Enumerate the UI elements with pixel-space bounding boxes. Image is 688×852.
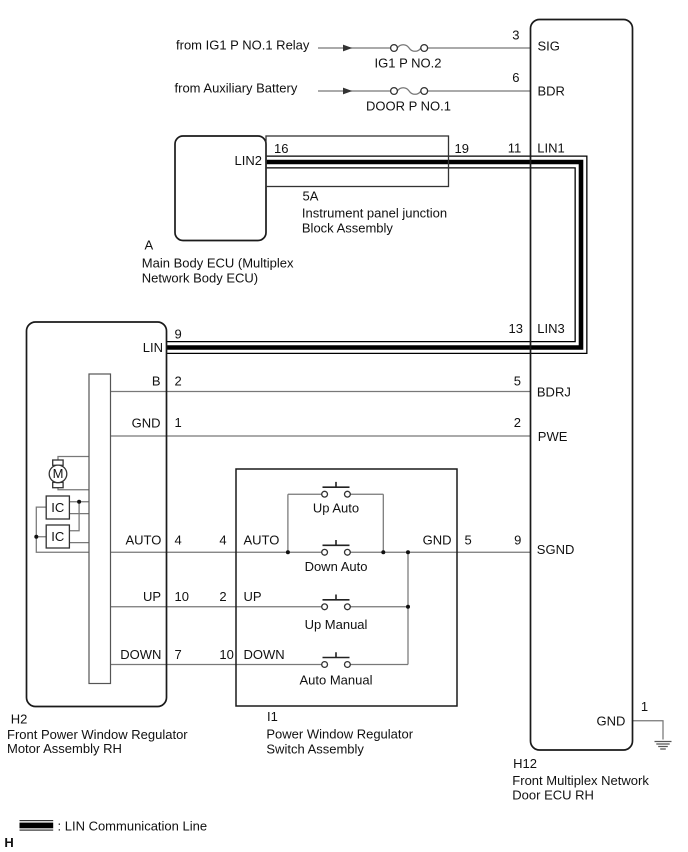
svg-text:6: 6: [512, 70, 519, 85]
svg-text:IG1 P NO.2: IG1 P NO.2: [375, 56, 442, 71]
wire H12 GND pin to ground: [633, 721, 664, 740]
svg-text:LIN2: LIN2: [235, 153, 262, 168]
arrow SIG row: [343, 45, 352, 52]
svg-text:Main Body ECU (Multiplex: Main Body ECU (Multiplex: [142, 255, 294, 270]
svg-text:Up Manual: Up Manual: [305, 617, 368, 632]
wire DOWN / Auto Manual row: [111, 664, 409, 666]
svg-text:5: 5: [514, 373, 521, 388]
svg-text:5A: 5A: [303, 189, 319, 204]
arrow BDR row: [343, 88, 352, 95]
svg-text:1: 1: [641, 699, 648, 714]
svg-text:Front Multiplex Network: Front Multiplex Network: [512, 773, 649, 788]
svg-text:Instrument panel junction: Instrument panel junction: [302, 206, 447, 221]
svg-text:4: 4: [175, 532, 182, 547]
svg-text:LIN: LIN: [143, 340, 163, 355]
svg-text:I1: I1: [267, 709, 278, 724]
fuse DOOR P NO.1: [391, 88, 428, 95]
svg-text:16: 16: [274, 141, 288, 156]
IC 1: [46, 496, 69, 519]
switch Auto Manual: [300, 652, 373, 687]
svg-text:2: 2: [175, 373, 182, 388]
svg-text:Power Window Regulator: Power Window Regulator: [266, 727, 413, 742]
svg-text:Network Body ECU): Network Body ECU): [142, 270, 258, 285]
switch Down Auto: [305, 540, 368, 574]
motor M: [49, 460, 67, 488]
svg-text:from IG1 P NO.1 Relay: from IG1 P NO.1 Relay: [176, 37, 310, 52]
wire Up Auto branch: [288, 494, 383, 552]
svg-text:LIN3: LIN3: [537, 321, 564, 336]
svg-text:A: A: [145, 238, 154, 253]
svg-text:10: 10: [219, 647, 233, 662]
wire IC1 to strip: [69, 502, 89, 514]
wire GND to PWE: [111, 435, 531, 437]
svg-text:Motor Assembly RH: Motor Assembly RH: [7, 741, 122, 756]
switch Up Manual: [305, 595, 368, 632]
wire UP / Up Manual row: [111, 606, 409, 608]
svg-text:5: 5: [465, 532, 472, 547]
svg-text:M: M: [53, 466, 64, 481]
box I1 Power Window Regulator Switch Assembly: [236, 469, 457, 706]
svg-text:GND: GND: [132, 416, 161, 431]
svg-text:PWE: PWE: [538, 429, 568, 444]
wire switch common to GND: [407, 552, 409, 664]
svg-text:Front Power Window Regulator: Front Power Window Regulator: [7, 727, 188, 742]
svg-text:B: B: [152, 373, 161, 388]
svg-text:4: 4: [219, 532, 226, 547]
switch Up Auto: [313, 482, 359, 516]
svg-text:DOWN: DOWN: [120, 647, 161, 662]
svg-text:LIN1: LIN1: [537, 141, 564, 156]
svg-text:2: 2: [219, 589, 226, 604]
svg-text:from Auxiliary Battery: from Auxiliary Battery: [175, 81, 298, 96]
svg-text:Door ECU RH: Door ECU RH: [512, 787, 594, 802]
wire B to BDRJ: [111, 391, 531, 393]
svg-text:H12: H12: [513, 756, 537, 771]
svg-text:13: 13: [509, 321, 523, 336]
wire SIG row (from IG1 relay to pin 3): [318, 47, 531, 49]
svg-text:: LIN Communication Line: : LIN Communication Line: [58, 819, 208, 834]
svg-text:3: 3: [512, 28, 519, 43]
ground: [655, 742, 672, 750]
svg-text:DOWN: DOWN: [244, 647, 285, 662]
svg-text:Up Auto: Up Auto: [313, 501, 359, 516]
wire motor to connector strip: [58, 457, 89, 490]
svg-text:H2: H2: [11, 711, 28, 726]
box A Main Body ECU (LIN2): [175, 136, 266, 241]
node junction dots: [286, 550, 290, 554]
svg-text:7: 7: [175, 647, 182, 662]
wire BDR row (from auxiliary battery to pin 6): [318, 90, 531, 92]
svg-text:Down Auto: Down Auto: [305, 559, 368, 574]
svg-text:IC: IC: [51, 500, 64, 515]
svg-text:2: 2: [514, 415, 521, 430]
svg-text:SGND: SGND: [537, 542, 575, 557]
svg-text:9: 9: [514, 532, 521, 547]
svg-text:Switch Assembly: Switch Assembly: [266, 742, 364, 757]
svg-text:GND: GND: [423, 532, 452, 547]
connector strip inside H2: [89, 374, 111, 684]
svg-text:SIG: SIG: [538, 38, 560, 53]
box H12 Front Multiplex Network Door ECU RH: [531, 20, 633, 751]
svg-text:H: H: [4, 835, 13, 850]
svg-text:10: 10: [175, 589, 189, 604]
wire AUTO / Down Auto / SGND row: [111, 551, 531, 553]
svg-text:Auto Manual: Auto Manual: [300, 673, 373, 688]
wire IC left branch: [36, 507, 89, 552]
box H2 Front Power Window Regulator Motor Assembly RH: [27, 322, 167, 707]
svg-text:1: 1: [175, 415, 182, 430]
wire IC1/IC2 link: [69, 502, 79, 531]
legend LIN symbol: [20, 820, 54, 831]
svg-text:9: 9: [175, 327, 182, 342]
svg-text:IC: IC: [51, 529, 64, 544]
svg-text:AUTO: AUTO: [244, 532, 280, 547]
svg-text:11: 11: [508, 141, 522, 156]
svg-text:GND: GND: [597, 714, 626, 729]
fuse IG1 P NO.2: [391, 45, 428, 52]
svg-text:Block Assembly: Block Assembly: [302, 221, 394, 236]
wire IC2 to strip: [69, 542, 89, 544]
svg-text:UP: UP: [244, 589, 262, 604]
svg-text:AUTO: AUTO: [126, 532, 162, 547]
svg-text:DOOR P NO.1: DOOR P NO.1: [366, 99, 451, 114]
box 5A Instrument panel junction block assembly: [266, 136, 449, 187]
svg-text:UP: UP: [143, 589, 161, 604]
IC 2: [46, 525, 69, 548]
svg-text:BDRJ: BDRJ: [537, 385, 571, 400]
LIN communication line band (LIN2 to LIN1, down, LIN3 to H2 LIN pin): [167, 162, 582, 348]
svg-text:19: 19: [455, 141, 469, 156]
svg-text:BDR: BDR: [538, 84, 565, 99]
